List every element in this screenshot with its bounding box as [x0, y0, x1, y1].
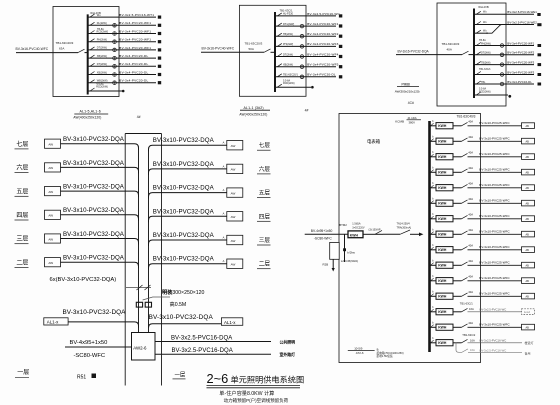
- terminal box row 2: [522, 138, 535, 144]
- floor box left 5: [45, 234, 61, 243]
- svg-text:四层: 四层: [16, 212, 28, 219]
- meter row 1 tap: [430, 125, 437, 127]
- svg-text:AB: AB: [526, 125, 530, 128]
- svg-text:A: A: [223, 212, 225, 216]
- riser shaft top edge: [125, 133, 161, 135]
- terminal box row 10: [522, 262, 535, 268]
- terminal square branch 6: [339, 65, 342, 68]
- svg-text:TB1-63C/2: TB1-63C/2: [462, 333, 476, 337]
- svg-text:AB: AB: [526, 218, 530, 221]
- row 8 breaker: [453, 233, 462, 235]
- svg-text:16A: 16A: [470, 348, 475, 352]
- riser cable 1: [138, 148, 140, 333]
- panel AL1-1 branch 3 wire: [275, 35, 336, 37]
- panel AL1-1 branch 6 wire: [275, 66, 336, 68]
- wire from floor box left 4 to riser: [61, 215, 139, 221]
- panel AL1-5 branch 4 wire: [88, 41, 156, 43]
- kWh meter box row 15: [436, 340, 453, 346]
- svg-text:BV-4x95+1x50: BV-4x95+1x50: [70, 340, 108, 346]
- svg-text:BV-3x4-PVC20-DL: BV-3x4-PVC20-DL: [119, 70, 148, 74]
- svg-text:KWH: KWH: [438, 233, 447, 237]
- svg-text:10-5/9: 10-5/9: [354, 346, 363, 350]
- svg-text:BV-3x10-PVC25-WFC: BV-3x10-PVC25-WFC: [479, 214, 510, 218]
- svg-text:3×DC220V: 3×DC220V: [352, 227, 365, 230]
- incoming feeder wire BV-4x95+1x50-SC80-WFC: [65, 346, 132, 348]
- row 2 breaker: [453, 140, 462, 142]
- svg-text:Wu: Wu: [483, 11, 487, 14]
- kWh meter branch 8: [113, 73, 117, 77]
- kWh meter branch 7: [500, 73, 504, 77]
- svg-text:40A: 40A: [468, 197, 473, 201]
- svg-text:BV-3x4-PVC20-DL: BV-3x4-PVC20-DL: [119, 62, 148, 66]
- svg-text:BV-3x10-PVC25-WFC: BV-3x10-PVC25-WFC: [479, 183, 510, 187]
- svg-text:BV-3x10-PVC25-WFC: BV-3x10-PVC25-WFC: [479, 291, 510, 295]
- svg-text:BV-3x2.5-PVC16-WC: BV-3x2.5-PVC16-WC: [480, 307, 507, 311]
- svg-text:AB: AB: [526, 203, 530, 206]
- svg-text:AW: AW: [231, 144, 236, 148]
- svg-text:AW: AW: [48, 166, 53, 170]
- svg-text:BV-3x10-PVC25-WFC: BV-3x10-PVC25-WFC: [479, 276, 510, 280]
- kWh meter branch 3: [113, 32, 117, 36]
- svg-text:BV-3x10-PVC32-DQA: BV-3x10-PVC32-DQA: [63, 160, 125, 167]
- svg-text:BV-3x10-PVC25-WFC: BV-3x10-PVC25-WFC: [479, 167, 510, 171]
- svg-text:BV-3x4-PVC16-DL: BV-3x4-PVC16-DL: [507, 80, 532, 84]
- svg-text:BV-3x2.5-PVC16-WT1: BV-3x2.5-PVC16-WT1: [119, 13, 154, 17]
- panel AL1-1 branch 7 wire: [275, 76, 336, 78]
- kWh meter box row 12: [436, 293, 453, 299]
- row 1 breaker: [453, 125, 462, 127]
- svg-text:BV-3x10-PVC32-DQA: BV-3x10-PVC32-DQA: [63, 136, 125, 143]
- svg-text:KWH: KWH: [438, 186, 447, 190]
- svg-text:BV-3x10-PVC25-WFC: BV-3x10-PVC25-WFC: [479, 322, 510, 326]
- panel AL1-1 spare branch: [275, 86, 311, 88]
- svg-text:b: b: [432, 121, 434, 123]
- junction box on riser 2: [145, 302, 151, 307]
- panel AL1-1 branch 1 wire: [275, 15, 336, 17]
- panel AL1-5 branch 9 wire: [88, 82, 156, 84]
- panel AW branch 2 wire: [474, 24, 534, 26]
- panel AW branch 7 wire: [474, 74, 534, 76]
- svg-text:BV-3x4-PVC20-WF4: BV-3x4-PVC20-WF4: [307, 52, 338, 56]
- meter row 3 tap: [430, 156, 437, 158]
- svg-text:PH(2kW): PH(2kW): [283, 43, 293, 46]
- svg-text:KWH: KWH: [438, 217, 447, 221]
- svg-text:BV-3x10-PVC32-DQA: BV-3x10-PVC32-DQA: [153, 185, 215, 192]
- wire from floor box left 1 to riser: [61, 144, 139, 150]
- svg-text:PH(2kW): PH(2kW): [97, 39, 107, 42]
- svg-text:40A: 40A: [468, 166, 473, 170]
- svg-text:b: b: [432, 338, 434, 340]
- svg-text:一层: 一层: [17, 369, 29, 376]
- meter row 15 tap: [430, 342, 437, 344]
- svg-text:6x(BV-3x10-PVC32-DQA): 6x(BV-3x10-PVC32-DQA): [50, 277, 117, 283]
- incoming feeder wire BV-3x16-PVC40-WFC: [201, 51, 264, 53]
- svg-text:六层: 六层: [259, 165, 271, 173]
- panel AW branch 5 wire: [474, 54, 534, 56]
- svg-text:XB(2kW): XB(2kW): [283, 64, 293, 67]
- svg-text:AW2-6: AW2-6: [133, 346, 147, 351]
- panel AW spare branch: [474, 94, 508, 96]
- svg-text:BV-3x10-PVC32-DQA: BV-3x10-PVC32-DQA: [63, 207, 125, 214]
- svg-text:4#: 4#: [305, 109, 309, 113]
- panel AW branch 3 wire joining branch 2: [474, 32, 488, 34]
- svg-text:DL(2kW): DL(2kW): [97, 22, 107, 25]
- svg-text:备用: 备用: [525, 351, 531, 356]
- terminal square branch 6: [158, 57, 161, 60]
- svg-text:AB: AB: [526, 172, 530, 175]
- floor box right 6: [227, 259, 243, 268]
- svg-text:40A: 40A: [468, 244, 473, 248]
- svg-text:AB: AB: [526, 187, 530, 190]
- terminal box row 5: [522, 185, 535, 191]
- kWh meter branch 6: [500, 63, 504, 67]
- terminal box row 8: [522, 231, 535, 237]
- svg-text:五层: 五层: [16, 188, 28, 195]
- kWh meter box row 7: [436, 216, 453, 222]
- svg-text:TB1-63C20/3: TB1-63C20/3: [56, 41, 74, 45]
- svg-text:KWH: KWH: [438, 295, 447, 299]
- output wire street lighting 1: [155, 341, 271, 343]
- kWh meter branch 6: [300, 65, 304, 69]
- svg-text:BV-3x2.5-PVC16-WE1: BV-3x2.5-PVC16-WE1: [507, 10, 537, 14]
- svg-text:AW: AW: [231, 168, 236, 172]
- row 14 breaker: [453, 326, 462, 328]
- svg-text:KWH: KWH: [438, 264, 447, 268]
- incoming feeder wire BV-3x16-PVC32-DQA: [396, 54, 462, 56]
- panel AL1-5 branch 1 wire: [88, 16, 156, 18]
- svg-text:BV-3x4-PVC20-DL: BV-3x4-PVC20-DL: [119, 79, 148, 83]
- svg-text:BV-3x10-PVC25-WFC: BV-3x10-PVC25-WFC: [479, 198, 510, 202]
- svg-text:BV-3x4-PVC20-DL: BV-3x4-PVC20-DL: [119, 54, 148, 58]
- main breaker 1: [370, 233, 383, 235]
- kWh meter branch 7: [300, 75, 304, 79]
- terminal square branch 4: [158, 40, 161, 43]
- svg-text:BV-3x4-PVC20-WF1: BV-3x4-PVC20-WF1: [507, 41, 534, 45]
- panel AW branch 4 wire: [474, 45, 534, 47]
- svg-text:-SC80-WFC: -SC80-WFC: [314, 236, 333, 240]
- meter row 10 tap: [430, 264, 437, 266]
- floor box right 3: [227, 188, 243, 197]
- svg-text:HL-PZ30: HL-PZ30: [283, 13, 294, 16]
- row 12 breaker: [453, 295, 462, 297]
- meter panel bus bar: [428, 121, 431, 352]
- svg-text:4C#: 4C#: [408, 101, 414, 105]
- svg-text:XB(2kW): XB(2kW): [97, 71, 107, 74]
- svg-text:AW: AW: [48, 214, 53, 218]
- svg-text:七层: 七层: [16, 140, 28, 148]
- kWh meter branch 6: [113, 56, 117, 60]
- svg-text:KWH: KWH: [438, 140, 447, 144]
- svg-text:b: b: [432, 292, 434, 294]
- meter row 8 tap: [430, 233, 437, 235]
- panel AW branch 8 wire: [474, 83, 534, 85]
- svg-text:AB: AB: [526, 280, 530, 283]
- svg-text:五层: 五层: [259, 190, 271, 197]
- svg-text:AW: AW: [48, 261, 53, 265]
- svg-text:A-1-2: A-1-2: [524, 311, 531, 314]
- svg-text:BV-3x10-PVC32-DQA: BV-3x10-PVC32-DQA: [153, 232, 215, 239]
- svg-text:A: A: [223, 259, 225, 263]
- leader line of surface-box note: [143, 297, 170, 300]
- svg-text:XB(2kW): XB(2kW): [97, 55, 107, 58]
- svg-text:KWH: KWH: [438, 202, 447, 206]
- svg-text:A: A: [223, 164, 225, 168]
- kWh meter box row 8: [436, 231, 453, 237]
- svg-text:RCD(2kW): RCD(2kW): [97, 31, 109, 34]
- terminal box row 11: [522, 278, 535, 284]
- wire from riser to floor box right 2: [149, 169, 227, 175]
- svg-text:2~6 单元照明供电系统图: 2~6 单元照明供电系统图: [207, 371, 305, 386]
- svg-text:b: b: [432, 183, 434, 185]
- svg-text:BV-3x10-PVC25-WFC: BV-3x10-PVC25-WFC: [479, 136, 510, 140]
- svg-text:KWH: KWH: [438, 248, 447, 252]
- terminal box row 1: [522, 123, 535, 129]
- terminal square branch 8: [158, 73, 161, 76]
- svg-text:七层: 七层: [259, 141, 271, 149]
- floor box left 3: [45, 187, 61, 196]
- svg-text:BV-3x2.5-PVC16-WC: BV-3x2.5-PVC16-WC: [307, 12, 340, 16]
- wire meter to breaker: [363, 233, 370, 235]
- svg-text:40A: 40A: [468, 151, 473, 155]
- terminal square branch 2: [158, 24, 161, 27]
- meter row 7 tap: [430, 218, 437, 220]
- panel AL1-1 branch 5 wire: [275, 56, 336, 58]
- svg-text:BV-3x4-PVC20-WF2: BV-3x4-PVC20-WF2: [507, 51, 534, 55]
- terminal square branch 1: [537, 13, 540, 16]
- svg-text:b: b: [432, 199, 434, 201]
- svg-text:KCMB: KCMB: [395, 119, 404, 123]
- svg-text:AL1-1 (3#2): AL1-1 (3#2): [244, 106, 264, 110]
- svg-text:公共照明: 公共照明: [280, 340, 296, 345]
- row 4 breaker: [453, 171, 462, 173]
- panel AL1-1 branch 2 wire: [275, 25, 336, 27]
- svg-text:b: b: [432, 307, 434, 309]
- svg-text:BV-3x2.5-PVC16-DQA: BV-3x2.5-PVC16-DQA: [171, 335, 232, 341]
- kWh meter branch 4: [113, 40, 117, 44]
- floor box left 2: [45, 163, 61, 172]
- svg-text:63A: 63A: [59, 46, 64, 50]
- svg-text:TN14-250/4: TN14-250/4: [397, 223, 411, 226]
- terminal box row 6: [522, 200, 535, 206]
- row 11 breaker: [453, 280, 462, 282]
- svg-text:41 kDA: 41 kDA: [408, 116, 417, 120]
- svg-text:DT(2kW): DT(2kW): [283, 53, 293, 56]
- svg-text:b: b: [432, 152, 434, 154]
- row 9 breaker: [453, 249, 462, 251]
- svg-text:AW(400x250x120): AW(400x250x120): [239, 112, 267, 116]
- kWh meter branch 4: [300, 45, 304, 49]
- svg-text:BV-3x2.5-PVC16-WE2: BV-3x2.5-PVC16-WE2: [507, 20, 537, 24]
- meter row 12 tap: [430, 295, 437, 297]
- bus bar of panel AL1-1: [274, 12, 276, 92]
- svg-text:六层: 六层: [16, 164, 28, 172]
- svg-text:BV-3x4-PVC20-DL: BV-3x4-PVC20-DL: [307, 73, 336, 77]
- svg-text:AT2-6: AT2-6: [356, 351, 364, 355]
- terminal box row 9: [522, 247, 535, 253]
- svg-text:KWH: KWH: [438, 155, 447, 159]
- terminal square branch 2: [339, 24, 342, 27]
- wire from riser to floor box right 1: [149, 145, 227, 151]
- svg-text:40A: 40A: [468, 275, 473, 279]
- svg-text:TB1-63C/1: TB1-63C/1: [460, 302, 474, 306]
- svg-text:RCD(2kW): RCD(2kW): [96, 86, 108, 89]
- svg-text:AW: AW: [231, 239, 236, 243]
- svg-text:b: b: [432, 261, 434, 263]
- svg-text:BV-3x4-PVC20-WF1: BV-3x4-PVC20-WF1: [119, 46, 151, 50]
- panel AW branch 6 wire: [474, 64, 534, 66]
- svg-text:40A: 40A: [468, 290, 473, 294]
- bus bar of panel AL1-5: [87, 14, 89, 94]
- terminal square branch 4: [538, 44, 542, 47]
- terminal square branch 3: [158, 32, 161, 35]
- svg-text:AB: AB: [526, 156, 530, 159]
- svg-text:Wu: Wu: [483, 21, 487, 24]
- meter row 9 tap: [430, 249, 437, 251]
- panel AL1-5 box: [53, 7, 119, 97]
- svg-text:AW: AW: [231, 215, 236, 219]
- panel AL1-5 spare branch: [88, 90, 122, 92]
- terminal square branch 2: [537, 23, 541, 26]
- wire from floor box left 6 to riser: [61, 262, 139, 268]
- floor box right 5: [227, 235, 243, 244]
- terminal square branch 8: [538, 83, 542, 86]
- svg-text:TB1-63C40/3: TB1-63C40/3: [457, 115, 476, 119]
- svg-text:b: b: [432, 214, 434, 216]
- svg-text:b: b: [432, 276, 434, 278]
- kWh meter box row 9: [436, 247, 453, 253]
- svg-text:动力箱预留P(户)空调线预留负荷: 动力箱预留P(户)空调线预留负荷: [224, 397, 289, 404]
- terminal square branch 5: [158, 48, 161, 51]
- svg-text:b: b: [432, 323, 434, 325]
- svg-text:BV-3x4-PVC20-WF2: BV-3x4-PVC20-WF2: [307, 32, 338, 36]
- output wire street lighting 2: [155, 353, 271, 355]
- svg-text:BV-3x10-PVC32-DQA: BV-3x10-PVC32-DQA: [63, 255, 125, 262]
- svg-text:配电箱(700×1900×250): 配电箱(700×1900×250): [377, 351, 404, 355]
- meter row 14 tap: [430, 326, 437, 328]
- svg-text:BV-3x10-PVC32-DQA: BV-3x10-PVC32-DQA: [153, 256, 215, 263]
- svg-text:BV-3x16-PVC40-WFC: BV-3x16-PVC40-WFC: [202, 46, 235, 50]
- terminal square branch 7: [538, 73, 542, 76]
- kWh meter box row 4: [436, 169, 453, 175]
- svg-text:BV-3x4-PVC20-WF1: BV-3x4-PVC20-WF1: [119, 29, 151, 33]
- svg-text:RCD(2kW): RCD(2kW): [283, 82, 295, 85]
- floor box right 4: [227, 212, 243, 221]
- terminal box row 3: [522, 154, 535, 160]
- terminal square branch 7: [158, 65, 161, 68]
- kWh meter branch 8: [500, 82, 504, 86]
- svg-text:KWH: KWH: [438, 326, 447, 330]
- svg-text:40A: 40A: [468, 213, 473, 217]
- svg-text:AW: AW: [231, 263, 236, 267]
- terminal square branch 5: [538, 53, 542, 56]
- wire AL1-x left to riser: [68, 322, 138, 328]
- svg-text:BV-3x4-PVC20-WF3: BV-3x4-PVC20-WF3: [507, 70, 534, 74]
- kWh meter box row 3: [436, 154, 453, 160]
- riser shaft left side: [124, 134, 126, 386]
- svg-text:b: b: [432, 230, 434, 232]
- svg-text:L2-C45(90/A): L2-C45(90/A): [341, 259, 358, 263]
- kWh meter box row 13: [436, 309, 453, 315]
- kWh meter box row 5: [436, 185, 453, 191]
- terminal square branch 1: [339, 14, 342, 17]
- svg-text:R51: R51: [77, 374, 86, 380]
- wire riser to AL1-x right: [149, 324, 222, 328]
- box AL1-x right: [221, 318, 242, 326]
- svg-text:KWH: KWH: [350, 233, 359, 237]
- terminal box row 4: [522, 169, 535, 175]
- svg-text:二层: 二层: [259, 261, 271, 268]
- kWh meter box row 14: [436, 324, 453, 330]
- panel AL1-5 branch 3 wire: [88, 33, 156, 35]
- terminal square branch 5: [339, 55, 342, 58]
- svg-text:AW: AW: [48, 143, 53, 147]
- svg-text:AW: AW: [48, 237, 53, 241]
- svg-text:BV-3x10-PVC32-DQA: BV-3x10-PVC32-DQA: [63, 231, 125, 238]
- svg-text:BV-3x2.5-PVC16-DQA: BV-3x2.5-PVC16-DQA: [172, 348, 233, 354]
- panel AL1-5 branch 2 wire: [88, 24, 156, 26]
- kWh meter branch 4: [500, 44, 504, 48]
- kWh meter branch 7: [113, 65, 117, 69]
- floor box right 2: [227, 164, 243, 173]
- row 6 breaker: [453, 202, 462, 204]
- terminal box row 13: [522, 309, 535, 315]
- floor box right 1: [227, 141, 243, 150]
- svg-text:AB: AB: [526, 141, 530, 144]
- svg-text:BV-3x10-PVC25-WFC: BV-3x10-PVC25-WFC: [479, 229, 510, 233]
- wire from riser to floor box right 5: [149, 240, 227, 246]
- svg-text:BV-3x10-PVC32-DQA: BV-3x10-PVC32-DQA: [153, 161, 215, 168]
- svg-text:KWH: KWH: [438, 341, 447, 345]
- kWh meter box row 10: [436, 262, 453, 268]
- svg-text:BV-3x10-PVC25-WFC: BV-3x10-PVC25-WFC: [479, 121, 510, 125]
- svg-text:二层: 二层: [16, 259, 28, 266]
- svg-text:KWH: KWH: [438, 124, 447, 128]
- svg-text:DTx(2kW): DTx(2kW): [283, 23, 294, 26]
- svg-text:BTM2: BTM2: [339, 223, 347, 227]
- svg-text:TB1-63C40/3: TB1-63C40/3: [442, 42, 460, 46]
- svg-text:40A: 40A: [468, 120, 473, 124]
- svg-text:TB1-63C/1: TB1-63C/1: [479, 68, 491, 71]
- svg-text:TB1-63C20/3: TB1-63C20/3: [245, 42, 263, 46]
- svg-text:BV-3x10-PVC32-DQA: BV-3x10-PVC32-DQA: [63, 309, 127, 316]
- svg-text:单-住户容量8.0KW 计算: 单-住户容量8.0KW 计算: [219, 389, 274, 397]
- svg-text:40A: 40A: [468, 228, 473, 232]
- svg-text:WH-4XB: WH-4XB: [478, 5, 489, 9]
- wire from riser to floor box right 4: [149, 216, 227, 222]
- kWh meter branch 5: [113, 48, 117, 52]
- svg-text:1.5(6)A: 1.5(6)A: [352, 223, 361, 226]
- row 3 breaker: [453, 156, 462, 158]
- wire from riser to floor box right 6: [149, 264, 227, 270]
- meter row 11 tap: [430, 280, 437, 282]
- row 5 breaker: [453, 187, 462, 189]
- svg-text:AB: AB: [526, 265, 530, 268]
- wire from floor box left 5 to riser: [61, 239, 139, 245]
- surge arrester box: [330, 242, 340, 259]
- riser shaft right side: [161, 134, 163, 386]
- neutral drop: [344, 234, 346, 262]
- kWh meter branch 9: [113, 81, 117, 85]
- kWh meter box row 11: [436, 278, 453, 284]
- svg-text:BV-3x16-PVC32-DQA: BV-3x16-PVC32-DQA: [398, 50, 430, 54]
- svg-text:BV-3x10-PVC32-DQA: BV-3x10-PVC32-DQA: [153, 137, 215, 144]
- svg-text:BV-3x4-PVC20-WF5: BV-3x4-PVC20-WF5: [307, 63, 338, 67]
- svg-text:40A: 40A: [468, 135, 473, 139]
- floor box left 1: [45, 139, 61, 148]
- incoming feeder wire BV-3x16-PVC40-WFC: [16, 52, 78, 54]
- svg-text:BV-4x95+1x50: BV-4x95+1x50: [311, 229, 333, 233]
- svg-text:AB: AB: [526, 249, 530, 252]
